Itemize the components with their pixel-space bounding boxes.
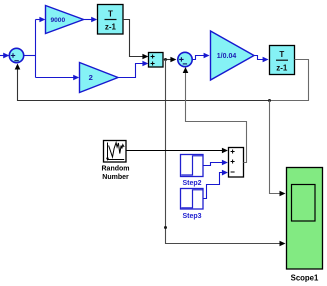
wire Sum4 output up to Sum3 bottom input	[183, 67, 247, 163]
wire Unit Delay1 output to Sum2 top input	[123, 20, 148, 60]
junction on Scope wire	[164, 226, 167, 229]
svg-text:T: T	[279, 50, 284, 59]
svg-text:9000: 9000	[50, 17, 65, 24]
sum block Sum4 (rect ++-)	[229, 148, 244, 178]
svg-text:z-1: z-1	[105, 23, 117, 32]
gain block 9000	[46, 6, 84, 34]
unit delay block Unit Delay2 (T/z-1)	[270, 46, 295, 75]
gain block 1/0.04	[211, 31, 255, 80]
scope block Scope1	[287, 168, 323, 270]
wire Sum2 output to Sum3 circle	[163, 57, 176, 63]
svg-text:Random: Random	[102, 165, 130, 172]
gain block 2	[80, 63, 119, 93]
wire Gain 2 to Sum2 bottom input	[118, 61, 148, 78]
wire Sum1 output branching to Gain 9000 and Gain 2	[24, 17, 80, 81]
step source block Step3	[181, 189, 204, 210]
svg-text:Step3: Step3	[182, 213, 201, 220]
wire Random Number to Sum4 input 1	[126, 148, 228, 154]
svg-text:Number: Number	[102, 174, 129, 181]
wire Gain 9000 to Unit Delay1	[84, 17, 98, 23]
sum block Sum1	[9, 48, 23, 62]
wire Step2 to Sum4 input 2	[203, 160, 228, 166]
step source block Step2	[181, 155, 204, 177]
wire feedback branch down to Scope1 input 1	[270, 101, 286, 197]
wire Sum2 output branch down to Scope1 input 2	[166, 60, 286, 247]
unit delay block Unit Delay1 (T/z-1)	[98, 5, 124, 35]
sum block Sum3 (circle)	[178, 52, 192, 66]
svg-text:z-1: z-1	[276, 64, 288, 73]
svg-text:2: 2	[89, 73, 93, 82]
label Random Number	[102, 165, 130, 181]
sum block Sum2 (square ++)	[149, 53, 164, 68]
wire input into Sum1 from left edge	[0, 53, 9, 59]
svg-text:Scope1: Scope1	[291, 273, 319, 282]
svg-text:T: T	[108, 9, 113, 18]
svg-text:1/0.04: 1/0.04	[217, 53, 237, 60]
wire feedback to Sum1 bottom input	[15, 64, 270, 101]
junction at Sum2 output	[164, 58, 167, 61]
wire Gain 1/0.04 to Unit Delay2	[254, 56, 269, 63]
junction on feedback wire	[268, 99, 271, 102]
wire Step3 to Sum4 input 3	[203, 170, 228, 199]
wire Sum3 output to Gain 1/0.04	[192, 53, 209, 60]
wire Unit Delay2 output right and down	[270, 60, 309, 101]
random number source block	[104, 141, 127, 163]
svg-text:Step2: Step2	[182, 180, 201, 187]
